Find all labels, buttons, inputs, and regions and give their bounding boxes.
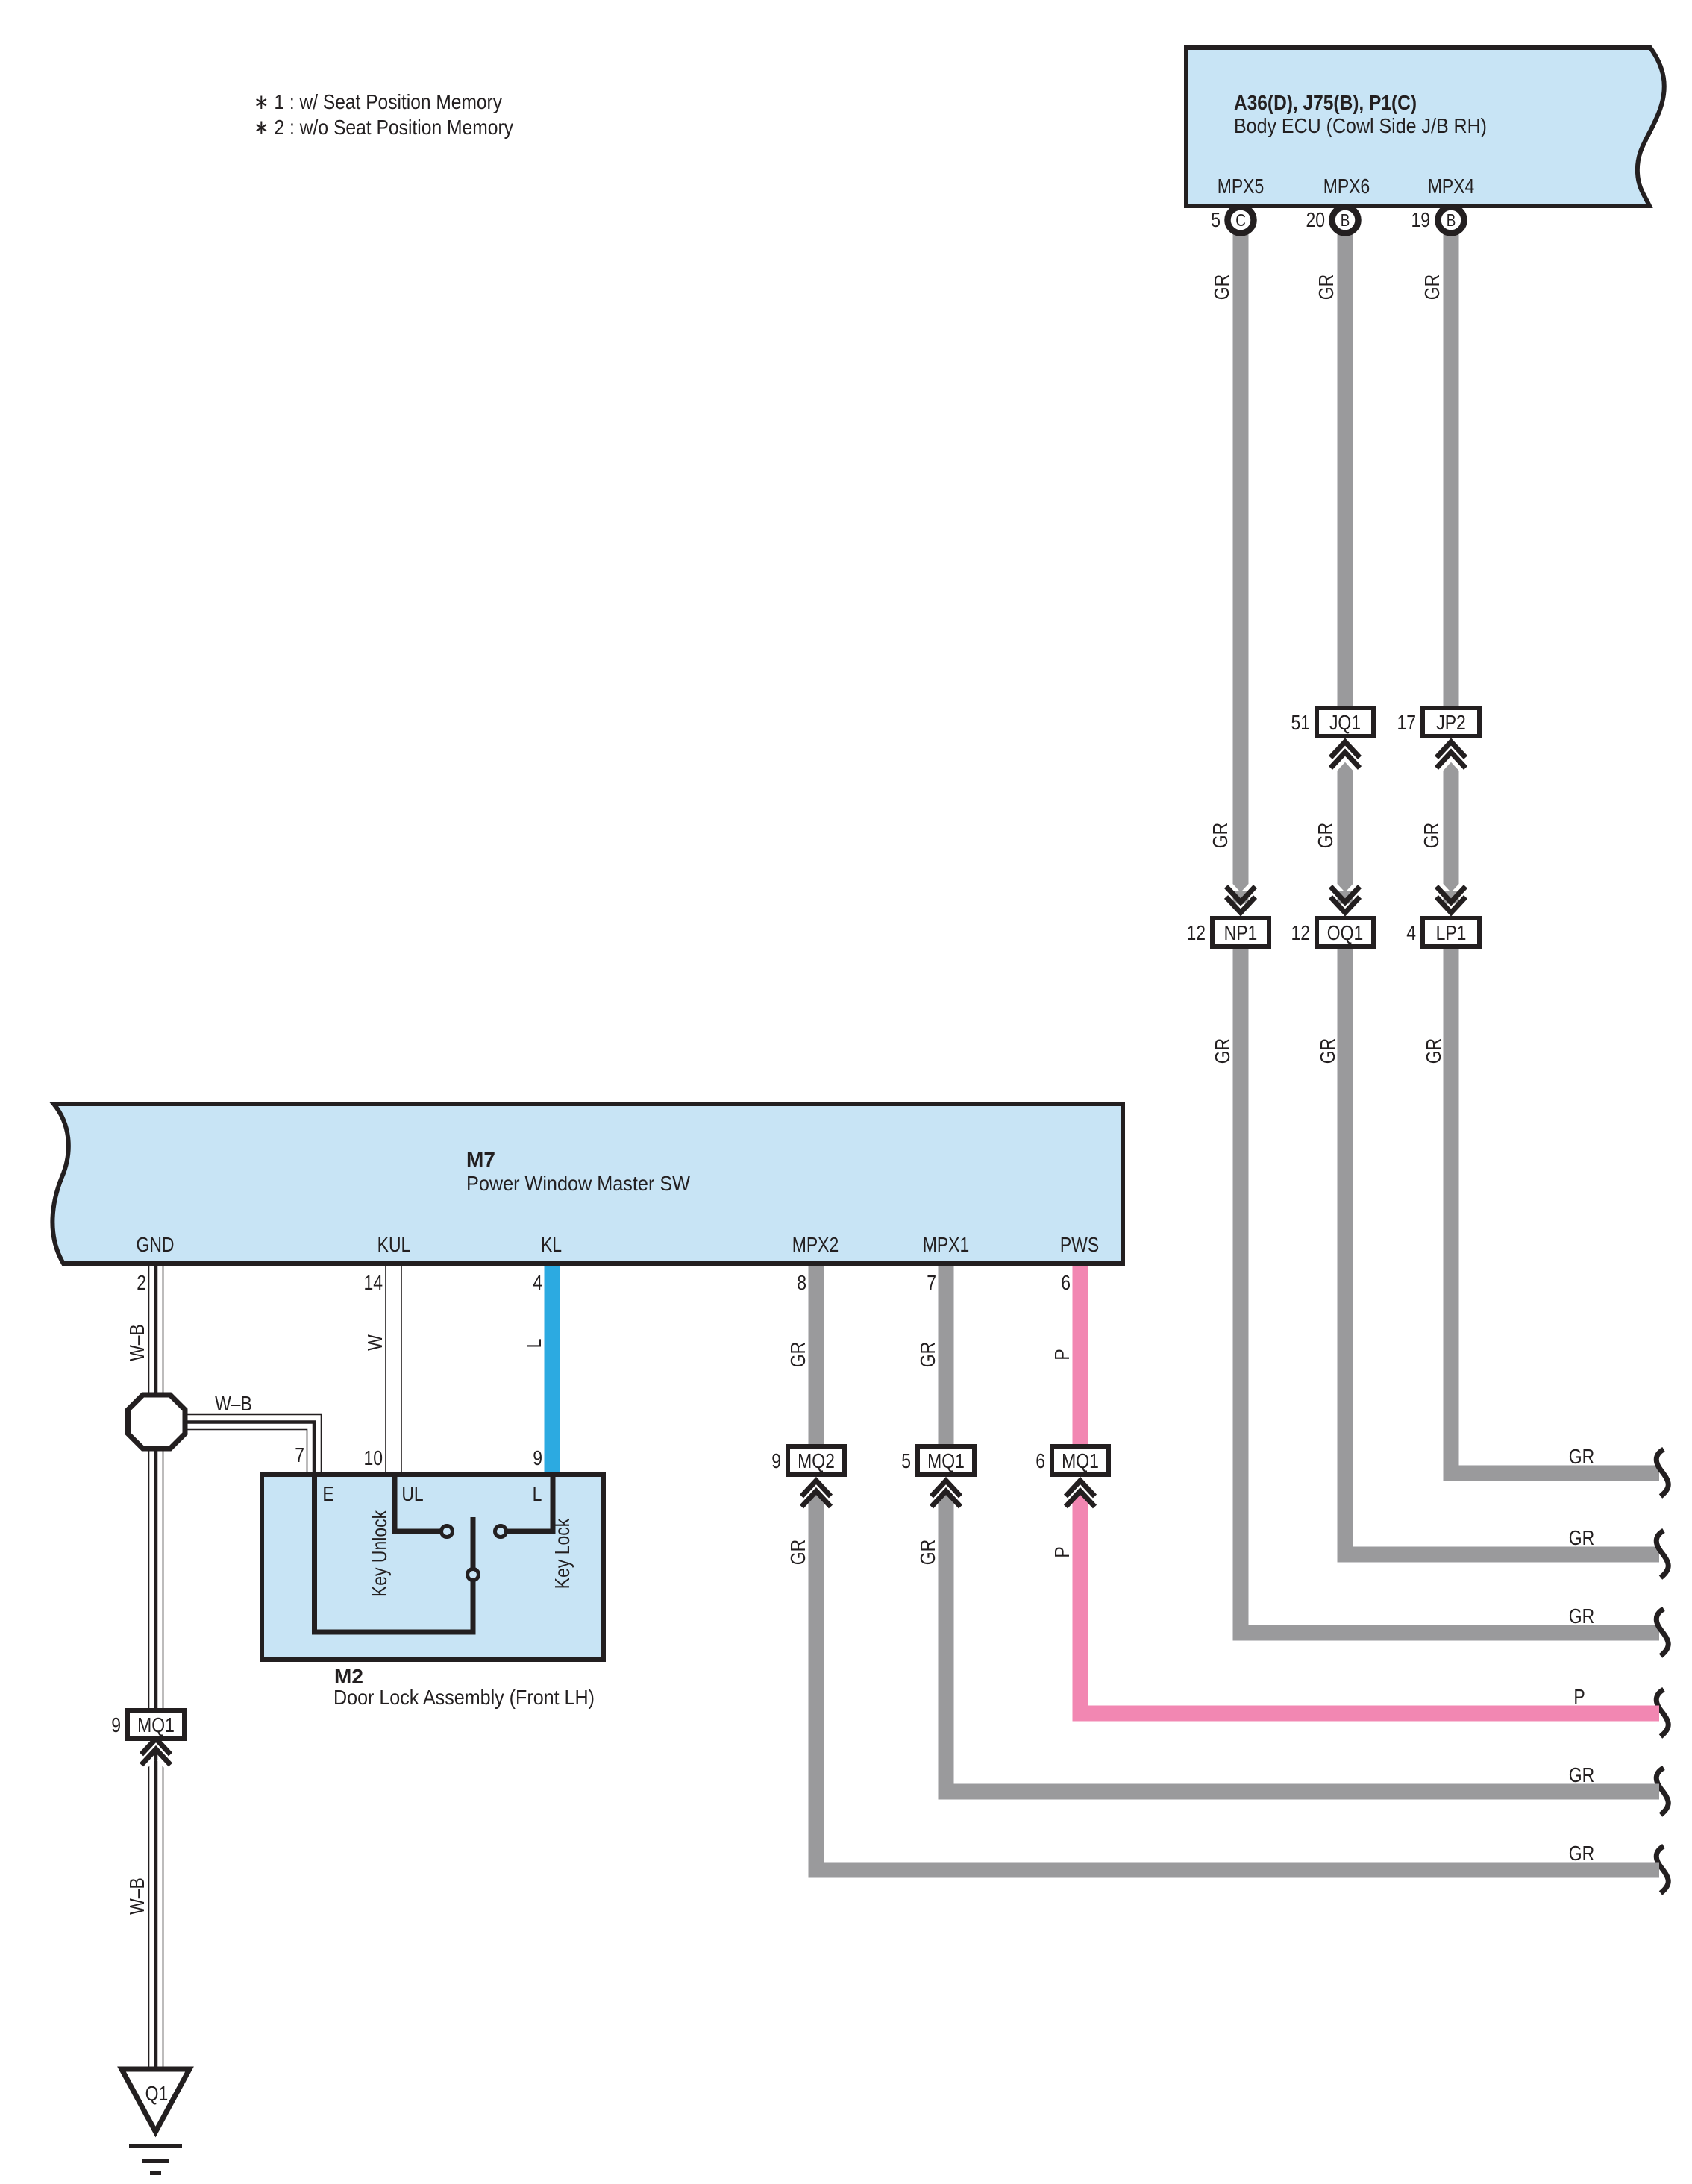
- svg-text:GR: GR: [1315, 274, 1338, 300]
- svg-text:NP1: NP1: [1224, 922, 1258, 945]
- svg-text:B: B: [1341, 211, 1350, 230]
- svg-text:MQ2: MQ2: [798, 1450, 835, 1473]
- key lock contact and wiring inside M2: [495, 1477, 574, 1589]
- note 1 : w/ Seat Position Memory: [254, 90, 502, 113]
- svg-text:C: C: [1235, 211, 1246, 230]
- svg-text:7: 7: [295, 1444, 304, 1467]
- svg-text:GR: GR: [1569, 1527, 1594, 1550]
- svg-text:M2: M2: [334, 1665, 363, 1688]
- wire L blue from M7 KL pin 4 to M2 pin 9: [545, 1266, 560, 1473]
- svg-text:GR: GR: [1569, 1446, 1594, 1469]
- svg-text:GR: GR: [1569, 1605, 1594, 1628]
- svg-text:7: 7: [927, 1272, 936, 1295]
- connector 51 JQ1: [1291, 708, 1373, 768]
- wire GR from MPX4 pin 19 down through JP2, LP1, right to page edge: [1444, 224, 1660, 1473]
- svg-text:LP1: LP1: [1436, 922, 1467, 945]
- svg-text:MPX1: MPX1: [923, 1234, 970, 1257]
- svg-text:17: 17: [1397, 712, 1416, 735]
- svg-text:5: 5: [901, 1450, 911, 1473]
- svg-text:GR: GR: [1211, 274, 1234, 300]
- switch pole inside M2: [315, 1477, 479, 1632]
- wire GR from M7 MPX2 pin 8 through MQ2 down and right to page edge: [809, 1266, 1660, 1870]
- svg-text:MPX6: MPX6: [1323, 175, 1370, 198]
- svg-text:MQ1: MQ1: [1062, 1450, 1099, 1473]
- wire W-B from M7 GND pin 2 to octagon junction to MQ1 to ground: [149, 1266, 163, 2069]
- svg-text:L: L: [533, 1483, 542, 1506]
- pin 19 circle B of Body ECU: [1411, 207, 1464, 233]
- note 2 : w/o Seat Position Memory: [254, 116, 513, 139]
- svg-text:GR: GR: [1209, 823, 1232, 848]
- svg-text:GR: GR: [1421, 274, 1444, 300]
- svg-text:L: L: [523, 1339, 546, 1349]
- svg-text:51: 51: [1291, 712, 1310, 735]
- svg-text:GR: GR: [787, 1342, 810, 1367]
- pin 20 circle B of Body ECU: [1306, 207, 1358, 233]
- svg-text:Key Lock: Key Lock: [551, 1519, 574, 1590]
- wire P pink from M7 PWS pin 6 through MQ1 down and right to page edge: [1073, 1266, 1660, 1713]
- svg-text:P: P: [1051, 1546, 1074, 1557]
- svg-text:MPX2: MPX2: [792, 1234, 839, 1257]
- svg-text:4: 4: [533, 1272, 542, 1295]
- svg-text:GR: GR: [1212, 1038, 1235, 1064]
- svg-text:OQ1: OQ1: [1327, 922, 1363, 945]
- svg-text:E: E: [322, 1483, 333, 1506]
- Body ECU block A36(D), J75(B), P1(C): [1186, 48, 1664, 206]
- svg-text:∗ 2 : w/o Seat Position Memory: ∗ 2 : w/o Seat Position Memory: [254, 116, 513, 139]
- svg-text:P: P: [1573, 1686, 1585, 1709]
- connector 5 MQ1: [901, 1446, 974, 1510]
- key unlock contact and wiring inside M2: [369, 1477, 453, 1597]
- svg-text:Power Window Master SW: Power Window Master SW: [466, 1172, 691, 1195]
- svg-text:GR: GR: [1569, 1764, 1594, 1787]
- svg-text:GR: GR: [787, 1540, 810, 1565]
- svg-text:KL: KL: [541, 1234, 562, 1257]
- svg-text:MQ1: MQ1: [927, 1450, 965, 1473]
- svg-text:P: P: [1051, 1349, 1074, 1360]
- svg-text:GR: GR: [917, 1342, 940, 1367]
- svg-text:Door Lock Assembly (Front LH): Door Lock Assembly (Front LH): [333, 1686, 595, 1709]
- svg-text:Q1: Q1: [145, 2083, 169, 2106]
- svg-text:GR: GR: [1420, 823, 1444, 848]
- svg-text:4: 4: [1406, 922, 1416, 945]
- wire GR from MPX6 pin 20 down through JQ1, OQ1, right to page edge: [1338, 224, 1660, 1554]
- svg-text:12: 12: [1186, 922, 1206, 945]
- connector 9 MQ2: [771, 1446, 845, 1510]
- svg-text:6: 6: [1035, 1450, 1045, 1473]
- svg-text:MPX5: MPX5: [1218, 175, 1265, 198]
- pin 5 circle C of Body ECU: [1211, 207, 1253, 233]
- wire W from M7 KUL pin 14 to M2 pin 10: [386, 1266, 401, 1473]
- svg-text:5: 5: [1211, 209, 1221, 232]
- svg-text:KUL: KUL: [377, 1234, 411, 1257]
- svg-text:8: 8: [797, 1272, 806, 1295]
- break symbol y2084: [1656, 1531, 1668, 1578]
- svg-text:10: 10: [363, 1447, 383, 1470]
- svg-text:19: 19: [1411, 209, 1430, 232]
- svg-text:9: 9: [111, 1714, 121, 1737]
- svg-text:12: 12: [1291, 922, 1310, 945]
- break symbol y1975: [1656, 1449, 1668, 1496]
- svg-text:GR: GR: [1317, 1038, 1340, 1064]
- M7 Power Window Master SW block: [52, 1104, 1123, 1264]
- svg-text:GND: GND: [136, 1234, 174, 1257]
- svg-text:GR: GR: [917, 1540, 940, 1565]
- svg-text:2: 2: [137, 1272, 146, 1295]
- svg-text:B: B: [1447, 211, 1456, 230]
- svg-text:20: 20: [1306, 209, 1325, 232]
- svg-text:6: 6: [1061, 1272, 1071, 1295]
- svg-text:∗ 1 : w/ Seat Position Memory: ∗ 1 : w/ Seat Position Memory: [254, 90, 502, 113]
- connector 9 MQ1 on W-B wire: [111, 1710, 184, 1765]
- svg-text:JQ1: JQ1: [1329, 712, 1361, 735]
- svg-text:W: W: [364, 1334, 387, 1350]
- svg-text:GR: GR: [1569, 1842, 1594, 1866]
- wire GR from MPX5 pin 5 down to NP1 and right to page edge: [1233, 224, 1660, 1633]
- svg-text:UL: UL: [401, 1483, 423, 1506]
- svg-text:JP2: JP2: [1436, 712, 1466, 735]
- wire W-B branch from octagon to M2 pin 7: [187, 1415, 322, 1474]
- svg-text:9: 9: [771, 1450, 781, 1473]
- connector 6 MQ1: [1035, 1446, 1109, 1510]
- svg-text:M7: M7: [466, 1148, 495, 1171]
- connector 17 JP2: [1397, 708, 1479, 768]
- svg-text:W–B: W–B: [126, 1877, 149, 1915]
- svg-text:Key Unlock: Key Unlock: [369, 1510, 392, 1597]
- svg-text:GR: GR: [1315, 823, 1338, 848]
- connector 4 LP1: [1406, 887, 1479, 947]
- octagon junction: [128, 1395, 186, 1449]
- wire GR from M7 MPX1 pin 7 through MQ1 down and right to page edge: [939, 1266, 1660, 1792]
- break symbol y2297: [1656, 1689, 1668, 1736]
- ground Q1: [122, 2069, 189, 2173]
- svg-text:9: 9: [533, 1447, 542, 1470]
- svg-text:MPX4: MPX4: [1428, 175, 1475, 198]
- svg-text:W–B: W–B: [126, 1324, 149, 1361]
- break symbol y2189: [1656, 1609, 1668, 1656]
- break symbol y2402: [1656, 1768, 1668, 1815]
- connector 12 OQ1: [1291, 887, 1373, 947]
- connector 12 NP1: [1186, 887, 1269, 947]
- svg-text:GR: GR: [1423, 1038, 1446, 1064]
- svg-text:MQ1: MQ1: [137, 1714, 175, 1737]
- svg-text:A36(D), J75(B), P1(C): A36(D), J75(B), P1(C): [1234, 91, 1417, 114]
- break symbol y2507: [1656, 1846, 1668, 1893]
- svg-text:PWS: PWS: [1060, 1234, 1099, 1257]
- svg-text:14: 14: [363, 1272, 383, 1295]
- svg-text:Body ECU (Cowl Side J/B RH): Body ECU (Cowl Side J/B RH): [1234, 114, 1487, 137]
- svg-text:W–B: W–B: [215, 1393, 252, 1416]
- M2 Door Lock Assembly block: [262, 1475, 604, 1709]
